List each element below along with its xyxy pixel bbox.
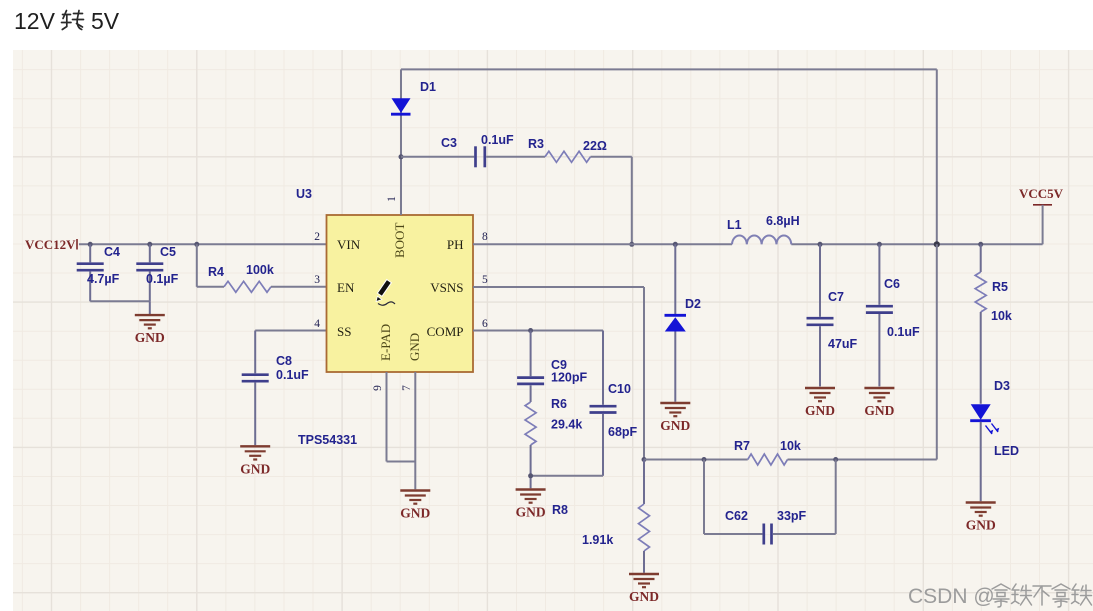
capacitor C7 47uF [807,244,858,386]
svg-text:GND: GND [629,589,659,604]
svg-text:R7: R7 [734,439,750,453]
svg-text:2: 2 [314,231,320,243]
svg-text:R6: R6 [551,397,567,411]
title text 12V 转 5V [14,8,120,34]
svg-text:C7: C7 [828,290,844,304]
svg-text:7: 7 [401,385,413,391]
svg-text:0.1µF: 0.1µF [146,272,179,286]
svg-text:C62: C62 [725,509,748,523]
svg-text:R5: R5 [992,280,1008,294]
svg-text:0.1uF: 0.1uF [887,325,920,339]
svg-text:U3: U3 [296,187,312,201]
capacitor C8 0.1uF [242,354,309,445]
capacitor C6 0.1uF [866,244,920,386]
svg-text:120pF: 120pF [551,371,587,385]
wire R3 down to PH rail [631,157,633,245]
svg-text:1.91k: 1.91k [582,533,613,547]
ground symbol for D3 [966,503,996,533]
node junction at C4 tap [88,242,93,247]
svg-text:R3: R3 [528,137,544,151]
svg-text:6.8µH: 6.8µH [766,214,800,228]
watermark CSDN @拿铁不拿铁 [908,584,1092,608]
node junction output/top-wire/feedback [934,241,940,247]
resistor R5 10k [975,244,1012,403]
svg-text:COMP: COMP [427,324,464,339]
svg-text:1: 1 [386,196,398,202]
node junction at R4 tap [194,242,199,247]
wire VCC12V rail to VIN [79,243,328,245]
svg-text:VSNS: VSNS [430,280,463,295]
svg-text:0.1uF: 0.1uF [481,133,514,147]
svg-text:GND: GND [966,518,996,533]
svg-text:R8: R8 [552,503,568,517]
diode D2 catch diode [665,244,702,401]
wire C4/C5 ground rail [90,301,150,314]
svg-text:CSDN @: CSDN @ [908,585,995,608]
diode D3 LED indicator [970,379,1019,501]
node junction BOOT/C3 [399,154,404,159]
svg-text:EN: EN [337,280,355,295]
svg-text:8: 8 [482,231,488,243]
resistor R8 1.91k [552,460,650,573]
svg-text:C3: C3 [441,136,457,150]
node junction at C7 [818,242,823,247]
svg-text:GND: GND [240,461,270,476]
capacitor C10 68pF [590,382,638,476]
designator U3 [296,187,312,201]
wire PH rail [473,243,1043,245]
ground symbol for C9/R6/C10 [516,490,546,520]
svg-text:10k: 10k [780,439,801,453]
svg-text:D2: D2 [685,297,701,311]
svg-text:VIN: VIN [337,237,361,252]
wire SS pin to C8 [255,331,327,374]
net label VCC12V [25,237,77,252]
svg-text:33pF: 33pF [777,509,807,523]
diode D1 [391,80,436,114]
svg-text:9: 9 [372,385,384,391]
wire feedback vertical to R7 [936,244,938,459]
svg-text:5V: 5V [91,8,120,34]
mouse cursor pencil icon on IC [376,280,395,306]
capacitor C3 0.1uF [441,133,545,167]
svg-text:4.7µF: 4.7µF [87,272,120,286]
svg-text:TPS54331: TPS54331 [298,433,357,447]
capacitor C4 4.7uF [77,244,120,301]
svg-text:BOOT: BOOT [392,223,407,258]
svg-text:SS: SS [337,324,351,339]
wire VCC5V stub [1042,205,1044,245]
capacitor C9 120pF [517,331,587,403]
wire compensation bottom rail [531,476,603,489]
resistor R7 10k [734,439,801,465]
svg-text:E-PAD: E-PAD [378,324,393,361]
wire E-PAD pin 9 to ground [387,372,416,462]
node junction at R5 [978,242,983,247]
node junction feedback divider [642,457,647,462]
resistor R6 29.4k [525,397,582,476]
svg-text:C10: C10 [608,382,631,396]
ground symbol for C8 [240,446,270,476]
svg-text:C6: C6 [884,277,900,291]
svg-text:100k: 100k [246,263,274,277]
wire VSNS pin to feedback node [473,287,644,460]
node junction C62 left [702,457,707,462]
wire COMP pin to C10 branch [473,331,603,405]
svg-text:GND: GND [805,403,835,418]
svg-text:D1: D1 [420,80,436,94]
inductor L1 6.8uH [727,214,800,244]
svg-text:VCC5V: VCC5V [1019,186,1064,201]
svg-text:R4: R4 [208,265,224,279]
svg-text:GND: GND [407,333,422,361]
value label TPS54331 [298,433,357,447]
svg-text:VCC12V: VCC12V [25,237,76,252]
svg-text:C4: C4 [104,245,120,259]
svg-text:0.1uF: 0.1uF [276,368,309,382]
svg-text:29.4k: 29.4k [551,418,582,432]
svg-text:5: 5 [482,274,488,286]
ground symbol for C4/C5 [135,315,165,345]
node junction at C5 tap [147,242,152,247]
resistor R3 22Ω [528,137,632,162]
capacitor C5 0.1uF [136,244,178,301]
wire feedback node to R7 [644,459,748,461]
ground symbol for R8 [629,574,659,604]
node junction at D2 [673,242,678,247]
node junction C9 branch [528,328,533,333]
wire BOOT pin vertical [400,69,402,215]
wire BOOT to C3 [401,156,474,158]
IC pin numbers [314,196,488,391]
svg-text:47uF: 47uF [828,337,858,351]
svg-text:4: 4 [314,318,320,330]
node junction at C6 [877,242,882,247]
ground symbol for D2 [660,403,690,433]
svg-text:PH: PH [447,237,464,252]
svg-text:GND: GND [660,418,690,433]
node junction comp bottom [528,473,533,478]
svg-text:C8: C8 [276,354,292,368]
svg-text:12V: 12V [14,8,56,34]
wire R7 to output feedback vertical [788,459,937,461]
svg-text:22Ω: 22Ω [583,139,607,153]
svg-text:L1: L1 [727,218,742,232]
ground symbol for C7 [805,388,835,418]
svg-text:68pF: 68pF [608,425,638,439]
svg-text:LED: LED [994,444,1019,458]
IC pin names VIN EN SS BOOT PH VSNS COMP E-PAD GND [337,223,464,361]
capacitor C62 33pF [704,460,836,545]
node junction R3/PH [629,242,634,247]
svg-text:GND: GND [135,330,165,345]
net label VCC5V [1019,186,1064,205]
svg-text:D3: D3 [994,379,1010,393]
svg-text:GND: GND [516,505,546,520]
svg-text:C5: C5 [160,245,176,259]
resistor R4 100k [197,244,328,292]
ground symbol for IC [400,491,430,521]
svg-text:6: 6 [482,318,488,330]
svg-text:10k: 10k [991,309,1012,323]
ground symbol for C6 [864,388,894,418]
svg-text:GND: GND [400,506,430,521]
wire GND pin 7 to ground [414,372,416,489]
node junction C62 right [833,457,838,462]
wire top feedback from D1 to output node [401,69,937,244]
svg-text:GND: GND [864,403,894,418]
svg-text:3: 3 [314,274,320,286]
op-amp U1 TPS54331 regulator body U3 [327,215,474,372]
